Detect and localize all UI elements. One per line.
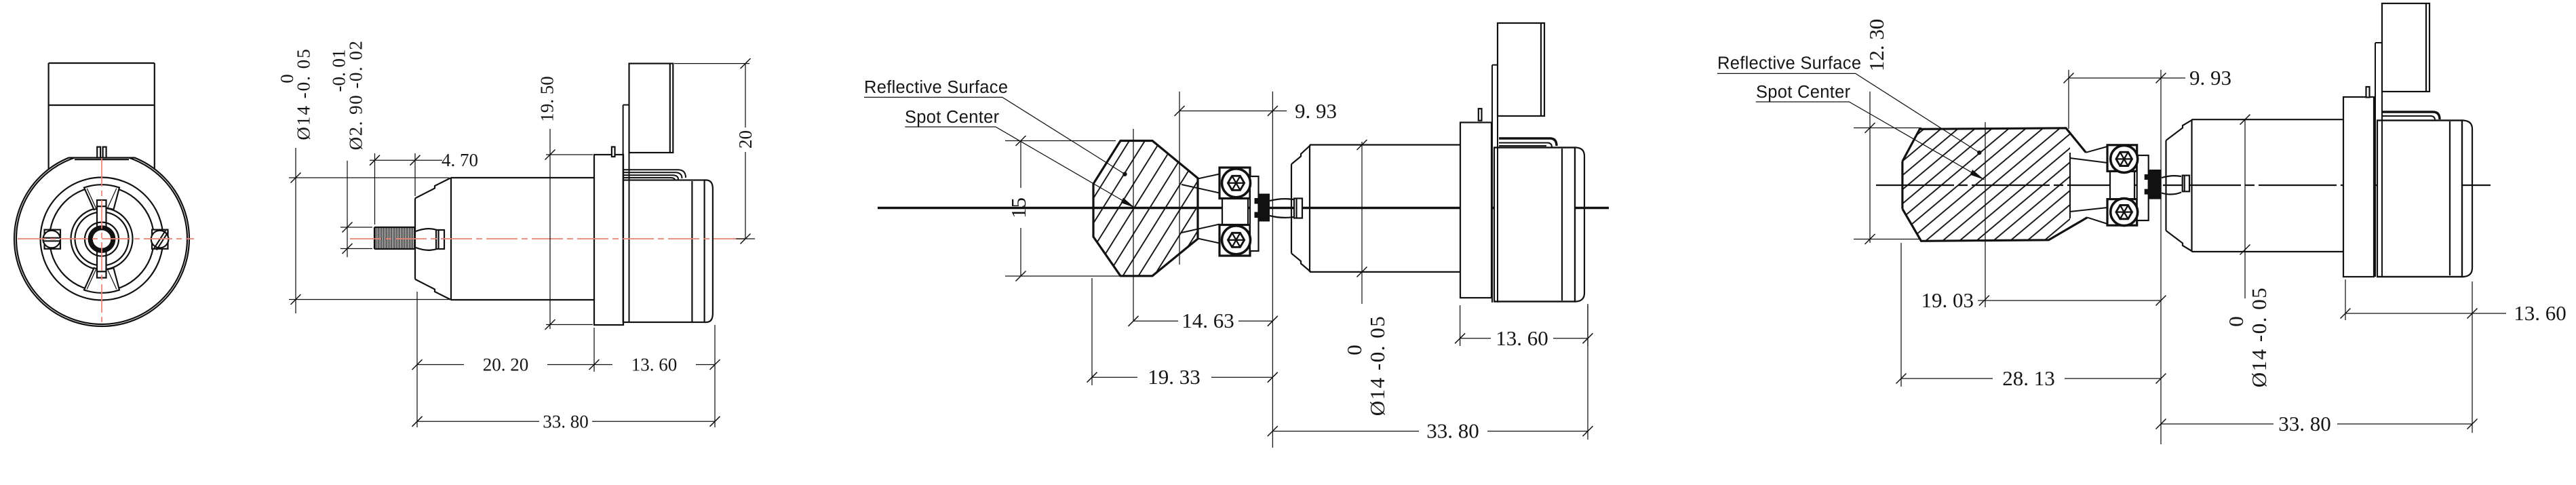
svg-text:Ø14 -0. 05: Ø14 -0. 05: [1365, 315, 1389, 416]
svg-text:4. 70: 4. 70: [442, 150, 478, 170]
view2 knurled shaft: [374, 227, 415, 249]
svg-text:12. 30: 12. 30: [1865, 19, 1888, 72]
view3 laser diode block (black): [1255, 194, 1270, 222]
view4 screw block: [2107, 145, 2149, 225]
view4 screw bottom (torx): [2111, 199, 2138, 226]
dim view2 33.80: [412, 412, 720, 432]
view3 flange disc: [1460, 123, 1491, 298]
svg-text:Ø14 -0. 05: Ø14 -0. 05: [294, 47, 314, 140]
dim view4 diameter 14: [2224, 115, 2271, 388]
dim view4 19.03: [1921, 288, 2166, 312]
view4 connector tab: [2382, 3, 2429, 92]
view4 pin: [2366, 87, 2370, 98]
view1 lens rings: thin circle and bold ring: [85, 222, 119, 256]
view4 laser diode block (black): [2145, 170, 2162, 199]
dim view3 diameter 14: [1342, 140, 1389, 416]
dim view2 diameter 14: [277, 47, 449, 313]
view3 screw bottom (torx): [1222, 226, 1251, 254]
view4 clamp arms: [2070, 147, 2107, 224]
view2 flange disc: [594, 155, 623, 325]
svg-text:Spot Center: Spot Center: [905, 108, 1000, 127]
svg-text:19. 50: 19. 50: [537, 76, 558, 122]
dim view3 15: [1005, 136, 1120, 282]
svg-text:20: 20: [735, 130, 756, 149]
view3 collet tip: [1270, 199, 1302, 218]
svg-text:9. 93: 9. 93: [2189, 66, 2231, 90]
view3 pcb plate: [1492, 65, 1498, 303]
svg-text:-0. 01: -0. 01: [329, 50, 349, 92]
view2 pin: [612, 147, 615, 157]
view4 prism (hatched): [1902, 128, 2088, 241]
view3 pin: [1479, 109, 1482, 121]
view4 flange disc: [2343, 97, 2374, 277]
view2 pcb plate: [623, 105, 629, 323]
view3 spring plates: [1499, 138, 1557, 147]
dim view3 33.80: [1268, 305, 1593, 443]
view3 connector tab: [1498, 23, 1544, 116]
svg-text:0: 0: [277, 74, 297, 83]
view2 nose cone: [415, 178, 451, 300]
dim view2 20.20 and 13.60: [412, 292, 720, 427]
view3 clamp arms: [1182, 174, 1219, 244]
svg-text:28. 13: 28. 13: [2002, 366, 2055, 390]
view1 index pins on flat: [97, 147, 106, 158]
view4 spring plates: [2382, 112, 2440, 120]
dim view4 12.30: [1854, 19, 1921, 244]
svg-text:19. 33: 19. 33: [1148, 365, 1201, 389]
view4 main cylinder: [2192, 119, 2344, 252]
view2 spring plates: [624, 170, 686, 180]
view4 spot center extension line: [1985, 122, 1986, 307]
view1 body rectangle (top tab seen from front): [49, 63, 155, 170]
view3 screw block: [1219, 168, 1259, 256]
svg-text:Spot Center: Spot Center: [1756, 83, 1851, 102]
view1 outer flange circle (double line): [14, 148, 189, 327]
svg-text:Reflective Surface: Reflective Surface: [864, 78, 1008, 97]
dim view4 13.60: [2341, 279, 2567, 325]
dim view4 9.93: [2064, 66, 2232, 444]
view4 pcb plate: [2375, 43, 2382, 277]
view3 bold centerline: [878, 207, 1609, 210]
dim view2 diameter 2.90: [329, 40, 373, 257]
svg-text:13. 60: 13. 60: [1496, 326, 1548, 350]
view4 label Reflective Surface: [1717, 54, 1982, 155]
view1 inner rings: [41, 178, 163, 300]
view1 top clamp wedge: [84, 185, 119, 210]
view4 centerline (dash-dot): [1876, 185, 2491, 186]
svg-text:13. 60: 13. 60: [631, 355, 678, 375]
view4 motor nose cone: [2166, 119, 2193, 252]
svg-text:0: 0: [1342, 345, 1366, 355]
view2 main cylinder: [451, 178, 594, 300]
svg-text:19. 03: 19. 03: [1921, 288, 1974, 312]
svg-text:33. 80: 33. 80: [2278, 412, 2331, 435]
view4 screw top (torx): [2111, 145, 2138, 172]
svg-text:33. 80: 33. 80: [543, 412, 589, 432]
dim view3 14.63: [1129, 309, 1278, 332]
view1 right screw: [151, 230, 169, 250]
view2 collet tip: [416, 229, 444, 250]
view3 main cylinder: [1310, 145, 1461, 272]
dim view3 13.60: [1455, 304, 1593, 350]
svg-text:13. 60: 13. 60: [2514, 301, 2567, 325]
svg-text:20. 20: 20. 20: [483, 355, 529, 375]
view4 label Spot Center: [1756, 83, 1985, 180]
svg-text:15: 15: [1007, 197, 1030, 218]
view4 rear body: [2377, 121, 2472, 277]
svg-text:9. 93: 9. 93: [1295, 99, 1337, 123]
view3 spot center extension line: [1133, 129, 1134, 321]
view1 center cross bar: [97, 200, 106, 278]
view2 connector tab: [629, 64, 674, 153]
view1 bottom clamp wedge: [84, 268, 119, 293]
view3 rear body: [1494, 148, 1584, 302]
view1 left screw: [43, 230, 60, 249]
view3 motor nose cone: [1291, 145, 1311, 272]
svg-text:Ø14 -0. 05: Ø14 -0. 05: [2247, 287, 2271, 387]
view3 label Spot Center: [905, 108, 1135, 208]
view3 prism (hatched): [1093, 141, 1198, 276]
view1 red centerlines: [18, 158, 194, 324]
view2 rear body: [623, 180, 713, 323]
dim view2 20: [674, 58, 756, 244]
dim view3 19.33: [1087, 278, 1278, 389]
dim view4 28.13: [1896, 243, 2166, 390]
view2 red centerline: [350, 238, 748, 239]
dim view2 4.70: [370, 150, 478, 225]
view4 collet tip: [2162, 176, 2189, 195]
dim view4 33.80: [2156, 282, 2478, 435]
svg-text:33. 80: 33. 80: [1426, 419, 1479, 443]
svg-text:0: 0: [2224, 316, 2248, 327]
view3 label Reflective Surface: [864, 78, 1127, 176]
svg-text:Reflective Surface: Reflective Surface: [1717, 54, 1861, 73]
dim view2 19.50: [537, 76, 593, 330]
svg-text:14. 63: 14. 63: [1182, 309, 1234, 332]
dim view3 9.93: [1175, 92, 1338, 448]
view3 screw top (torx): [1222, 169, 1251, 197]
